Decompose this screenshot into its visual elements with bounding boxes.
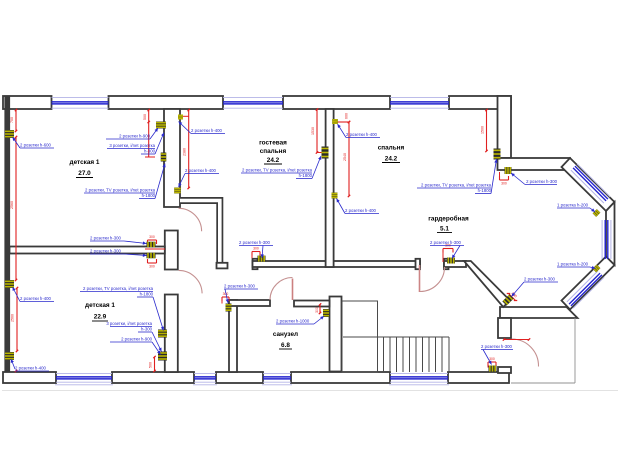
svg-text:детская 1: детская 1 — [70, 159, 100, 166]
svg-text:спальня: спальня — [378, 145, 405, 152]
svg-text:300: 300 — [489, 357, 495, 361]
svg-text:2 розетки h-400: 2 розетки h-400 — [20, 296, 52, 301]
svg-text:2 розетки h-300: 2 розетки h-300 — [90, 249, 122, 254]
svg-text:2 розетки h-400: 2 розетки h-400 — [346, 132, 378, 137]
svg-text:1 розетка h-200: 1 розетка h-200 — [557, 262, 589, 267]
svg-text:2 розетки h-300: 2 розетки h-300 — [239, 240, 271, 245]
svg-text:1530: 1530 — [311, 127, 315, 135]
svg-text:h-1800: h-1800 — [140, 292, 154, 297]
svg-text:2 розетки h-300: 2 розетки h-300 — [224, 284, 256, 289]
svg-text:спальня: спальня — [260, 148, 287, 155]
svg-text:h-1800: h-1800 — [478, 188, 492, 193]
svg-text:5.1: 5.1 — [440, 226, 449, 233]
svg-text:1 розетка h-200: 1 розетка h-200 — [557, 203, 589, 208]
svg-text:600: 600 — [345, 113, 349, 119]
svg-text:2 розетки h-1000: 2 розетки h-1000 — [276, 319, 310, 324]
svg-text:2 розетки, TV розетка, i/net р: 2 розетки, TV розетка, i/net розетка — [421, 183, 492, 188]
svg-text:2 розетки h-400: 2 розетки h-400 — [185, 168, 217, 173]
svg-text:300: 300 — [253, 247, 259, 251]
svg-text:300: 300 — [149, 265, 155, 269]
svg-text:300: 300 — [315, 307, 319, 313]
svg-text:300: 300 — [501, 182, 507, 186]
svg-text:h-1800: h-1800 — [142, 193, 156, 198]
svg-text:2 розетки h-600: 2 розетки h-600 — [20, 143, 52, 148]
svg-text:2 розетки, TV розетка, i/net р: 2 розетки, TV розетка, i/net розетка — [242, 168, 313, 173]
svg-text:2560: 2560 — [11, 314, 15, 322]
svg-text:2 розетки h-300: 2 розетки h-300 — [524, 277, 556, 282]
svg-text:3 розетки, i/net розетка: 3 розетки, i/net розетка — [109, 143, 155, 148]
svg-text:санузел: санузел — [273, 331, 298, 338]
svg-text:2 розетки h-900: 2 розетки h-900 — [119, 134, 151, 139]
svg-text:h-300: h-300 — [144, 149, 156, 154]
svg-text:27.0: 27.0 — [78, 170, 91, 177]
svg-text:2 розетки h-300: 2 розетки h-300 — [481, 344, 513, 349]
svg-text:2 розетки, TV розетка, i/net р: 2 розетки, TV розетка, i/net розетка — [83, 286, 154, 291]
svg-text:2560: 2560 — [10, 201, 14, 209]
svg-text:300: 300 — [149, 235, 155, 239]
svg-text:2 розетки h-400: 2 розетки h-400 — [191, 128, 223, 133]
svg-text:детская 1: детская 1 — [85, 302, 115, 309]
svg-text:h-300: h-300 — [141, 327, 153, 332]
svg-text:2 розетки, TV розетка, i/net р: 2 розетки, TV розетка, i/net розетка — [85, 188, 156, 193]
svg-text:6.8: 6.8 — [281, 342, 290, 349]
svg-text:2 розетки h-300: 2 розетки h-300 — [90, 236, 122, 241]
svg-text:гардеробная: гардеробная — [428, 215, 469, 223]
svg-text:2 розетки h-300: 2 розетки h-300 — [526, 179, 558, 184]
svg-text:гостевая: гостевая — [259, 140, 287, 147]
svg-text:24.2: 24.2 — [385, 156, 398, 163]
svg-text:700: 700 — [10, 117, 14, 123]
svg-text:2 розетки h-400: 2 розетки h-400 — [15, 366, 47, 371]
svg-text:1500: 1500 — [481, 126, 485, 134]
svg-text:h-1800: h-1800 — [299, 173, 313, 178]
svg-text:22.9: 22.9 — [94, 314, 107, 321]
svg-text:2 розетки h-400: 2 розетки h-400 — [345, 208, 377, 213]
svg-text:3 розетки, i/net розетка: 3 розетки, i/net розетка — [106, 321, 152, 326]
svg-text:2540: 2540 — [343, 153, 347, 161]
svg-text:500: 500 — [149, 362, 153, 368]
svg-text:2 розетки h-300: 2 розетки h-300 — [430, 240, 462, 245]
svg-text:2380: 2380 — [183, 148, 187, 156]
svg-text:2 розетки h-900: 2 розетки h-900 — [121, 337, 153, 342]
svg-text:500: 500 — [143, 114, 147, 120]
svg-text:24.2: 24.2 — [267, 157, 280, 164]
